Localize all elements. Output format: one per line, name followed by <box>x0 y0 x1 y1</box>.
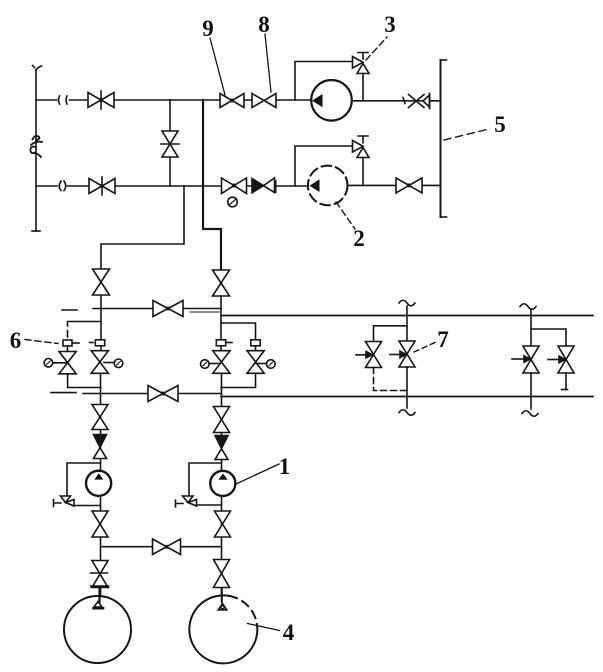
wire: bottom cross connect pipe <box>101 546 222 548</box>
main valve of left group <box>91 351 108 374</box>
svg-text:6: 6 <box>10 328 22 353</box>
valve on bottom cross pipe <box>153 539 181 555</box>
wire: left valve-group bypass top connection <box>68 322 102 338</box>
tank inlet cone right <box>218 588 227 610</box>
wire: left branch through lower pipe <box>100 373 102 404</box>
wire: cross line between pipes A and B <box>169 100 171 186</box>
svg-text:7: 7 <box>437 327 449 352</box>
left bypass valve of left group <box>59 352 76 374</box>
wire: station 7 main riser <box>406 306 408 341</box>
wire: pump 2 bypass loop <box>295 146 353 186</box>
valve below lower pipe left branch <box>92 405 108 430</box>
bypass valve of right station <box>558 346 574 373</box>
wire: right group bypass bottom connection <box>221 373 256 387</box>
label 7 <box>414 327 449 352</box>
wire: right station main riser <box>530 309 532 346</box>
valve on left middle branch top <box>93 269 110 295</box>
wire: lower suction pipe B <box>36 185 308 187</box>
control valve 7 <box>399 341 415 367</box>
valve on pipe B left <box>89 177 115 195</box>
bonnet cap of left main valve <box>90 340 105 351</box>
handwheel circle of left main valve <box>104 359 123 368</box>
valve below left pump <box>92 511 108 537</box>
tilde break above right station <box>520 304 536 310</box>
wire: middle upper pipe right segment <box>221 315 593 317</box>
wire: right station bypass stub <box>562 373 568 390</box>
valve above left tank <box>91 561 109 588</box>
label 2 <box>336 202 365 251</box>
wire: right group bypass top connection <box>221 323 256 341</box>
wire: middle lower pipe right segment <box>221 396 593 398</box>
pipe break squiggle on left header <box>30 136 42 157</box>
valve below lower pipe right branch <box>214 407 230 433</box>
header 5 vertical line <box>441 60 447 217</box>
wire: pump 2 outlet pipe <box>348 184 441 186</box>
wire: relief valve 2 outlet <box>362 158 364 186</box>
svg-text:1: 1 <box>279 454 291 479</box>
pump (left feed pump) <box>86 471 111 496</box>
tank (left) <box>64 596 131 663</box>
wire: station 7 main drop <box>406 367 408 408</box>
valve on right middle branch top <box>213 270 230 296</box>
flow arrow into bypass valve <box>356 352 373 359</box>
valve on middle upper pipe <box>153 301 183 317</box>
valve 9 on pipe A <box>220 94 244 108</box>
handwheel circle of left bypass valve <box>44 359 67 368</box>
pipe break marks on pipe A <box>59 96 68 104</box>
valve 8 on pipe A <box>252 94 276 108</box>
svg-text:3: 3 <box>384 12 396 37</box>
svg-text:8: 8 <box>258 12 270 37</box>
label 5 <box>444 112 506 140</box>
label 4 <box>248 620 295 645</box>
wire: left relief return <box>74 505 101 507</box>
relief valve of pump 3 <box>353 53 370 74</box>
svg-text:9: 9 <box>202 16 214 41</box>
tilde break below right station <box>522 411 538 417</box>
check valve left branch <box>94 435 107 459</box>
handwheel circle of right bypass valve <box>256 360 275 369</box>
wire: pump 3 outlet pipe <box>352 100 441 102</box>
wire: left group bypass bottom connection <box>68 374 101 388</box>
bypass control valve of station 7 <box>366 342 382 368</box>
wire: left middle branch feed <box>101 186 184 340</box>
wire: station 7 bypass return (dashed) <box>374 368 408 391</box>
wire: right pump bypass <box>189 463 222 496</box>
relief valve of pump 2 <box>353 136 370 158</box>
wire: right middle branch <box>220 296 222 341</box>
bonnet cap of left bypass valve 6 <box>63 340 79 352</box>
pump 1 (right feed pump) <box>210 471 235 496</box>
wire: pump 3 bypass loop <box>295 62 353 101</box>
wire: relief valve 3 outlet <box>362 74 364 101</box>
tank inlet cone left <box>94 588 104 608</box>
bypass valve of right group <box>247 351 264 374</box>
label 1 <box>236 454 290 484</box>
wire: right relief return <box>197 504 222 506</box>
check valve right branch <box>215 436 228 460</box>
valve on pipe A left <box>88 91 114 109</box>
wire: right branch through lower pipe <box>221 373 223 406</box>
bonnet cap of right bypass valve <box>251 340 260 351</box>
check valve on pipe B <box>252 178 276 193</box>
wire: middle upper pipe left segment <box>62 309 221 313</box>
valve below right pump <box>215 511 231 537</box>
pump 2 (dashed circle) <box>308 166 348 206</box>
label 3 <box>366 12 396 60</box>
wire: top suction pipe A <box>36 99 311 101</box>
flow arrow into valve 7 <box>390 351 406 358</box>
wire: right station bypass loop top <box>531 329 566 346</box>
tilde break above station 7 <box>399 300 415 306</box>
wire: bottom left branch line <box>100 405 102 602</box>
valve between pipe A and pipe B <box>161 131 179 157</box>
wire: bottom right branch line <box>221 407 223 602</box>
label 6 <box>10 328 58 353</box>
valve on pipe B with actuator circle <box>222 178 247 207</box>
bonnet cap of right main valve <box>216 340 232 351</box>
left supply header vertical line <box>32 66 42 232</box>
valve above right tank <box>214 560 230 588</box>
handwheel circle of right main valve <box>201 360 221 369</box>
wire: left pump bypass <box>67 463 101 496</box>
valve between pump 2 and header <box>396 178 422 193</box>
wire: right station main drop <box>530 373 532 409</box>
flow arrow into right main valve <box>512 356 530 363</box>
wire: station 7 bypass loop top <box>374 326 408 342</box>
pump 3 <box>311 80 352 121</box>
valve between pump 3 and header <box>403 94 430 109</box>
svg-text:5: 5 <box>494 112 506 137</box>
valve on middle lower pipe <box>148 386 178 402</box>
pipe break parentheses on pipe B <box>59 181 66 191</box>
wire: middle lower pipe left segment <box>51 392 221 395</box>
svg-text:4: 4 <box>283 620 295 645</box>
label 9 <box>202 16 225 95</box>
flow arrow into right bypass valve <box>548 356 565 363</box>
tank 4 (right, partly dashed) <box>189 595 257 663</box>
label 8 <box>258 12 271 92</box>
tilde break below station 7 <box>399 410 415 416</box>
main valve of right group <box>213 351 230 374</box>
wire: heavy drop line from pipe A to right middle branch <box>203 100 221 270</box>
left pump relief valve <box>54 496 75 507</box>
right pump relief valve <box>176 496 197 507</box>
main control valve of right station <box>523 346 539 373</box>
